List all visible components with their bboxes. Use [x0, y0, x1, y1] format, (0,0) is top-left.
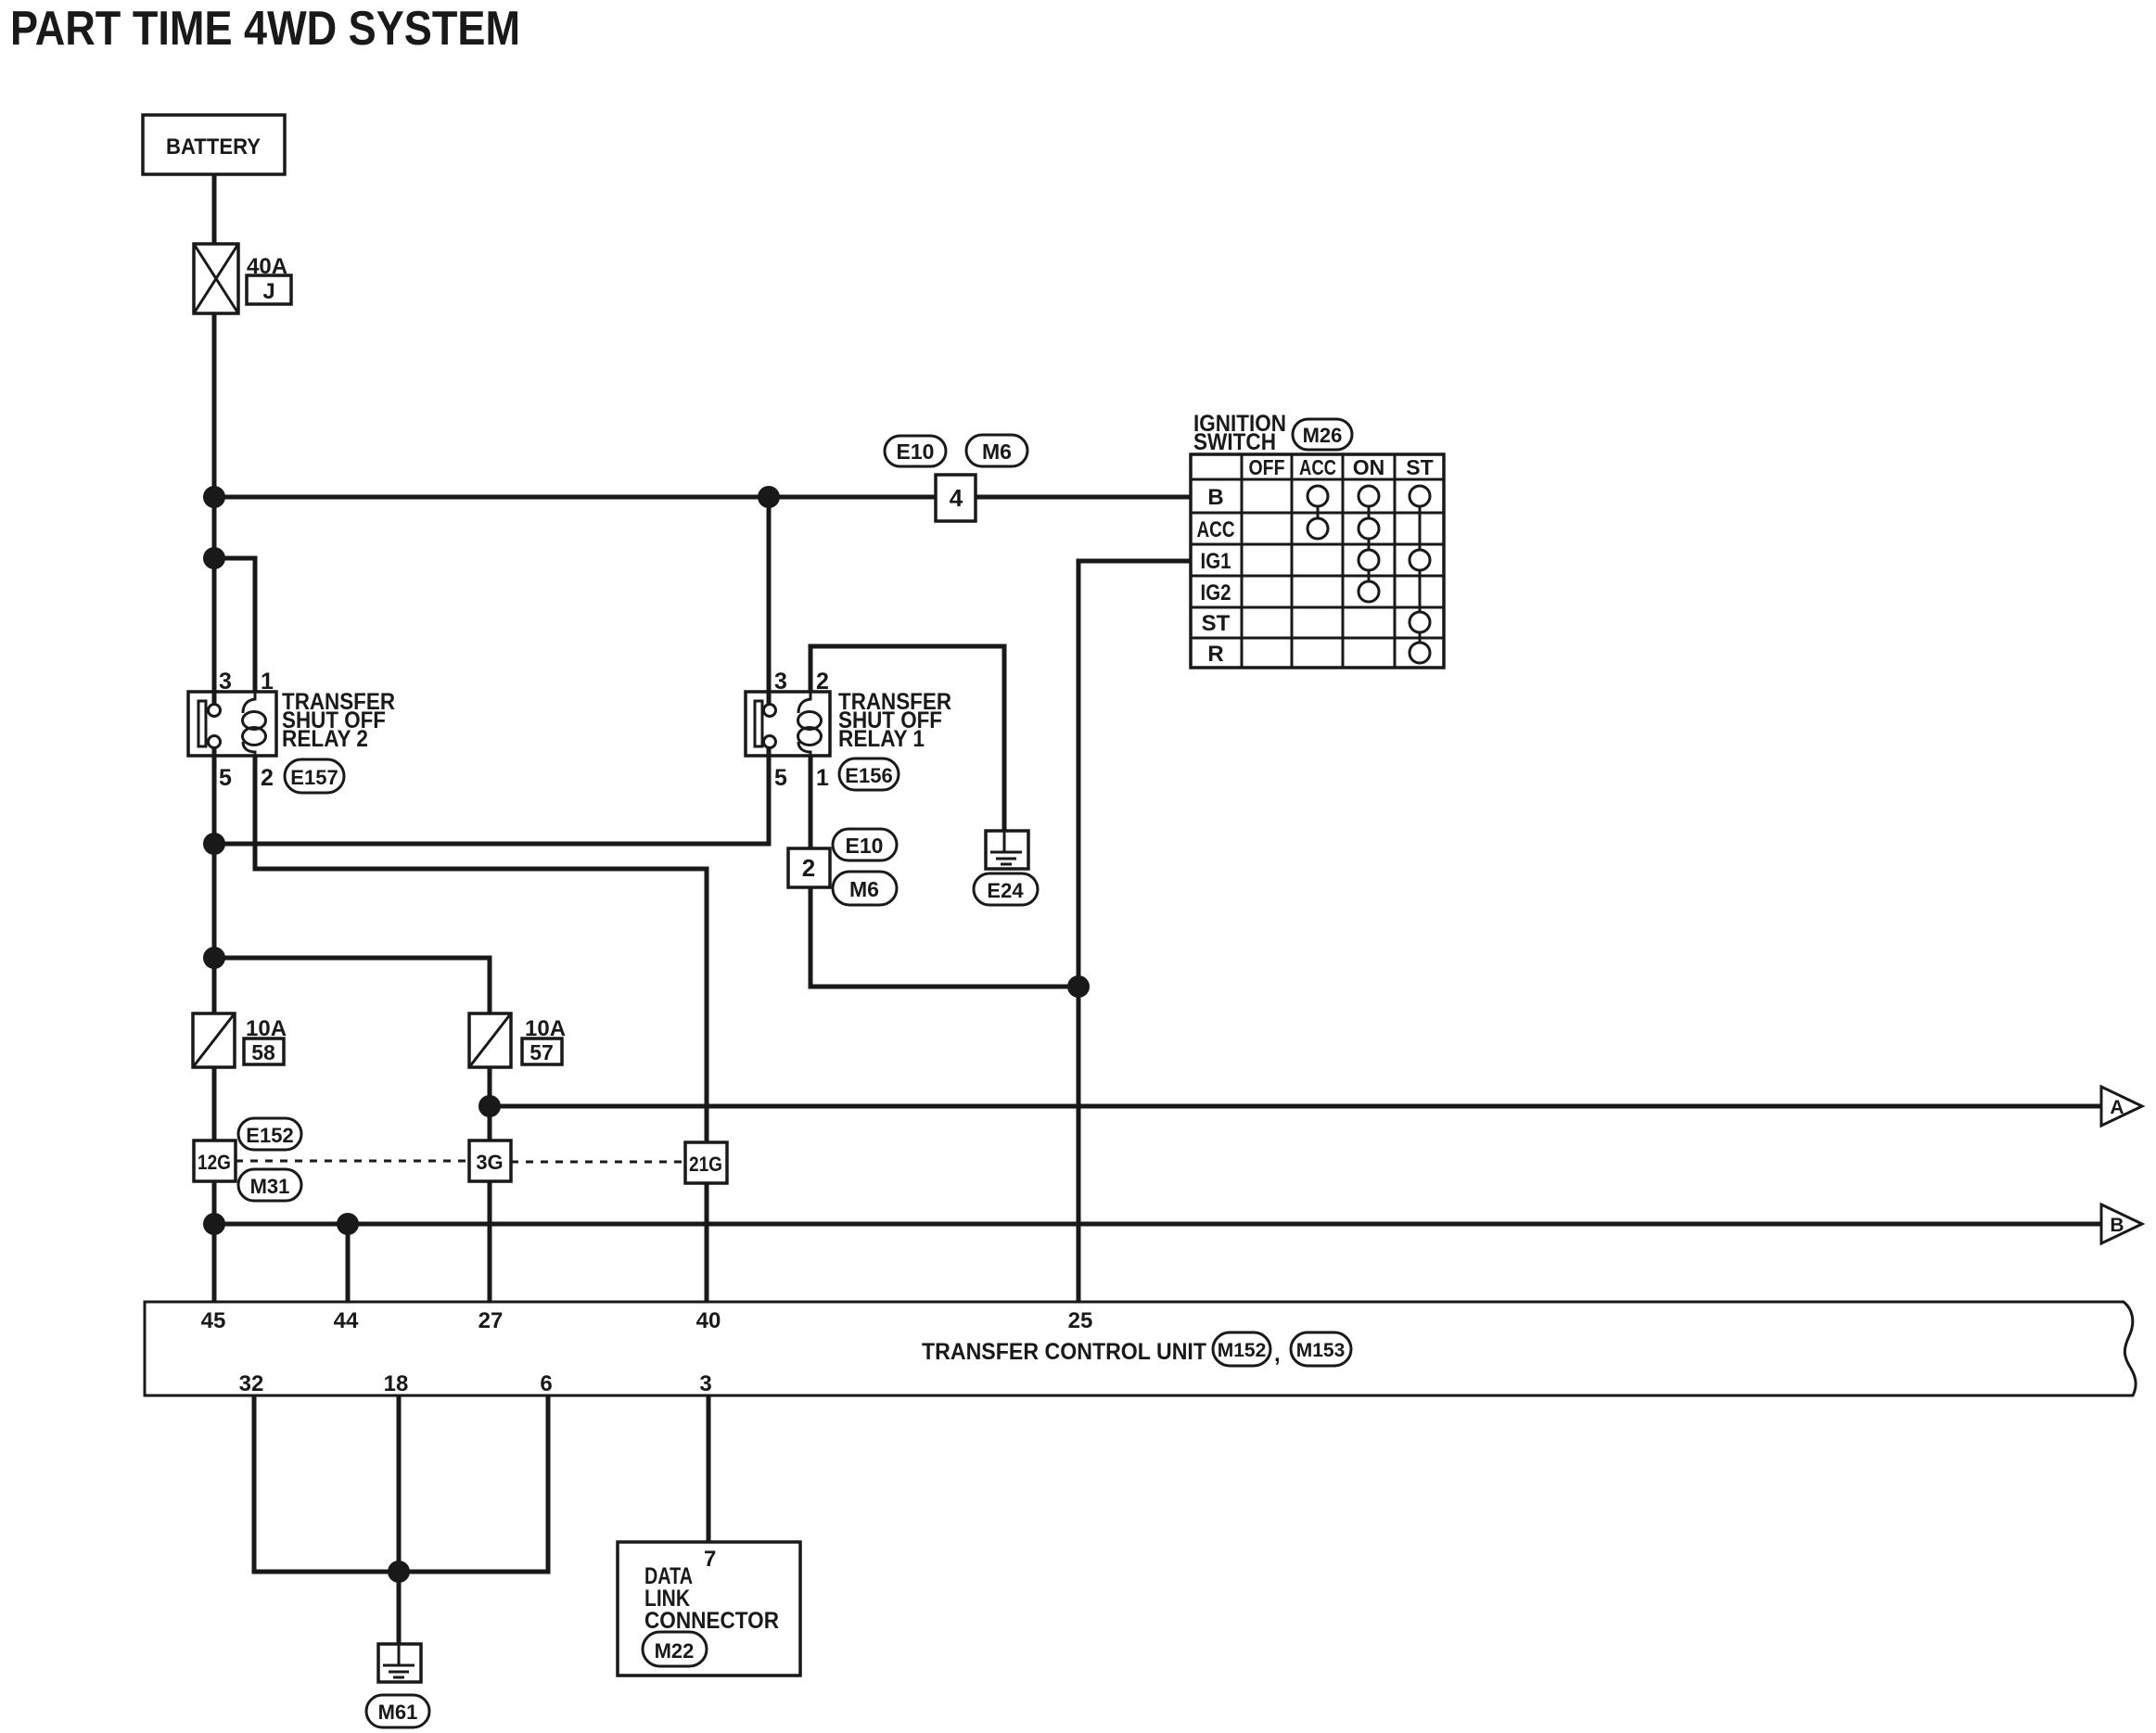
svg-text:57: 57 — [529, 1040, 554, 1064]
node IG1 feed junction — [1067, 975, 1090, 998]
svg-text:6: 6 — [540, 1371, 552, 1396]
svg-text:ST: ST — [1406, 455, 1433, 479]
svg-text:E156: E156 — [845, 764, 892, 787]
ground M61 — [378, 1644, 421, 1682]
svg-text:3G: 3G — [476, 1151, 503, 1174]
svg-text:1: 1 — [816, 765, 829, 791]
node A line branch — [478, 1095, 501, 1117]
arrow A (to 4WD shift switch) — [2101, 1087, 2142, 1126]
svg-text:2: 2 — [802, 854, 815, 882]
svg-text:BATTERY: BATTERY — [166, 134, 261, 159]
connector E10 (harness joint near 4) — [885, 436, 946, 466]
svg-text:M6: M6 — [849, 877, 879, 901]
svg-text:27: 27 — [478, 1308, 504, 1333]
connector E156 — [839, 758, 899, 790]
svg-text:R: R — [1207, 642, 1223, 667]
ignition switch contacts column ACC — [1308, 486, 1328, 539]
wire fuse 58 to 12G — [212, 1067, 217, 1140]
node relay 2 coil branch — [203, 547, 225, 569]
wire TCU pin 32 to ground bus — [254, 1395, 399, 1572]
node relay 1 pin 5 branch — [203, 833, 225, 855]
svg-text:M26: M26 — [1303, 424, 1343, 447]
ground E24 — [986, 831, 1028, 869]
wire to A arrow — [490, 1104, 2101, 1109]
svg-text:ON: ON — [1353, 455, 1385, 479]
connector M22 — [643, 1632, 707, 1666]
wire 3G to TCU pin 27 — [488, 1181, 492, 1302]
svg-text:E152: E152 — [246, 1124, 293, 1147]
svg-text:CONNECTOR: CONNECTOR — [644, 1608, 779, 1634]
svg-text:SWITCH: SWITCH — [1193, 429, 1276, 455]
ignition switch contacts column ON — [1359, 486, 1379, 602]
node TCU pin 44 branch — [337, 1213, 359, 1235]
wire 4 box to ignition switch B terminal — [976, 495, 1191, 500]
fuse 57 10A — [469, 1013, 566, 1067]
svg-text:2: 2 — [816, 669, 829, 694]
wire TCU pin 6 to ground bus — [399, 1395, 548, 1572]
relay TRANSFER SHUT OFF RELAY 2 (E157) — [188, 669, 395, 791]
svg-text:TRANSFER CONTROL UNIT: TRANSFER CONTROL UNIT — [922, 1339, 1206, 1365]
svg-text:B: B — [1207, 485, 1223, 510]
svg-text:44: 44 — [334, 1308, 359, 1333]
connector E24 — [974, 873, 1038, 905]
svg-text:M31: M31 — [250, 1175, 290, 1198]
connector E152 — [238, 1118, 301, 1150]
svg-text:IG2: IG2 — [1201, 580, 1231, 605]
svg-text:12G: 12G — [198, 1151, 231, 1174]
svg-text:32: 32 — [239, 1371, 264, 1396]
svg-text:40: 40 — [696, 1308, 721, 1333]
svg-text:3: 3 — [699, 1371, 711, 1396]
svg-text:58: 58 — [251, 1040, 275, 1064]
terminal 12G — [194, 1140, 236, 1181]
connector M152 — [1213, 1332, 1270, 1366]
svg-text:3: 3 — [219, 669, 232, 694]
fuse 58 10A — [193, 1013, 287, 1067]
terminal 21G — [685, 1142, 727, 1183]
pin 4 (harness connector box) — [936, 475, 976, 521]
svg-text:45: 45 — [201, 1308, 226, 1333]
connector M31 — [238, 1169, 301, 1201]
dashed link 3G to 21G — [511, 1161, 685, 1164]
svg-text:ACC: ACC — [1299, 455, 1336, 479]
svg-text:E10: E10 — [846, 834, 884, 858]
wire fusible link to relay 2 pin 3 (battery feed) — [212, 313, 217, 704]
ignition switch table — [1191, 454, 1444, 668]
svg-text:E157: E157 — [290, 766, 338, 789]
node relay 1 pin 3 branch — [758, 486, 780, 508]
wire fuse 57 to 3G — [488, 1067, 492, 1140]
svg-text:E24: E24 — [987, 879, 1024, 902]
DATA LINK CONNECTOR M22 — [618, 1542, 800, 1676]
wire relay 1 pin 2 to ground E24 — [810, 646, 1004, 831]
wire junction to relay 1 pin 5 — [214, 747, 769, 844]
svg-text:ST: ST — [1202, 611, 1231, 636]
wire junction to TCU pin 44 — [346, 1224, 351, 1302]
svg-text:5: 5 — [219, 765, 232, 791]
svg-text:M61: M61 — [378, 1701, 418, 1724]
wire to B arrow — [214, 1222, 2101, 1227]
svg-text:J: J — [262, 279, 274, 304]
TRANSFER CONTROL UNIT M152/M153 — [145, 1302, 2136, 1396]
node B line battery branch — [203, 1213, 225, 1235]
wire ignition switch IG1 to TCU pin 25 — [1078, 561, 1191, 1302]
svg-text:1: 1 — [261, 669, 274, 694]
wire relay 1 pin 1 to 2 box — [809, 756, 813, 848]
svg-text:M22: M22 — [655, 1639, 695, 1663]
connector M153 — [1291, 1332, 1351, 1366]
svg-text:ACC: ACC — [1197, 517, 1235, 542]
node ground bus junction — [388, 1561, 410, 1583]
wire junction to fuse 57 — [214, 958, 490, 1013]
battery — [143, 115, 285, 174]
svg-text:IG1: IG1 — [1201, 549, 1231, 574]
svg-text:B: B — [2110, 1215, 2124, 1236]
connector M6 (harness joint near 4) — [966, 435, 1027, 466]
relay TRANSFER SHUT OFF RELAY 1 (E156) — [746, 669, 951, 791]
wire junction to relay 1 pin 3 — [767, 497, 772, 705]
ignition switch contacts column ST — [1410, 486, 1430, 663]
svg-text:M6: M6 — [982, 440, 1012, 464]
node battery feed / ignition switch B branch — [203, 486, 225, 508]
svg-text:RELAY 1: RELAY 1 — [838, 726, 925, 752]
pin 2 (harness connector box) — [788, 848, 830, 887]
node fuse 57 branch — [203, 947, 225, 969]
svg-text:18: 18 — [384, 1371, 409, 1396]
svg-text:OFF: OFF — [1249, 455, 1285, 479]
wire TCU pin 18 to ground M61 — [397, 1395, 402, 1644]
svg-text:25: 25 — [1068, 1308, 1093, 1333]
svg-text:,: , — [1274, 1342, 1281, 1367]
wire 12G to TCU pin 45 — [212, 1181, 217, 1302]
svg-text:E10: E10 — [897, 440, 935, 464]
connector M61 — [366, 1695, 429, 1727]
svg-text:RELAY 2: RELAY 2 — [282, 726, 368, 752]
svg-text:5: 5 — [774, 765, 787, 791]
fusible link 40A J — [194, 244, 291, 313]
wire junction to relay 2 pin 1 (coil) — [214, 558, 255, 692]
svg-text:M152: M152 — [1218, 1340, 1267, 1361]
svg-text:7: 7 — [704, 1547, 716, 1572]
ignition switch M26 — [1193, 411, 1286, 455]
wire battery to fusible link J — [212, 174, 217, 244]
svg-text:21G: 21G — [689, 1153, 722, 1176]
svg-text:4: 4 — [950, 484, 963, 512]
svg-text:3: 3 — [774, 669, 787, 694]
connector M26 — [1293, 419, 1352, 450]
wire 2 box to IG1 feed junction — [810, 887, 1078, 987]
wire TCU pin 3 to data link connector pin 7 — [707, 1395, 711, 1542]
dashed link 12G to 3G — [236, 1160, 469, 1163]
arrow B (to 4WD shift switch) — [2101, 1204, 2142, 1243]
wire battery feed to ignition switch B (left segment) — [214, 495, 936, 500]
wire relay 2 pin 5 down to junction — [212, 747, 217, 1013]
svg-text:2: 2 — [261, 765, 274, 791]
wire 21G to TCU pin 40 — [705, 1183, 709, 1302]
svg-text:M153: M153 — [1296, 1340, 1346, 1361]
wire relay 2 pin 2 to TCU pin 40 (via 21G) — [255, 756, 707, 1142]
terminal 3G — [469, 1140, 511, 1181]
connector E157 — [285, 759, 344, 793]
connector M6 (harness joint near 2) — [833, 872, 897, 905]
connector E10 (harness joint near 2) — [833, 829, 897, 860]
svg-text:A: A — [2110, 1097, 2124, 1118]
svg-text:PART TIME 4WD SYSTEM: PART TIME 4WD SYSTEM — [10, 2, 520, 56]
